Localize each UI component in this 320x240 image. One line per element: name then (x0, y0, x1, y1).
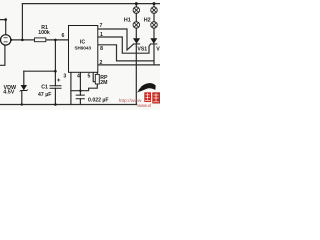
watermark red character 2 (152, 92, 160, 103)
wire C1 bottom to ground rail (54, 88, 56, 104)
svg-text:100k: 100k (38, 30, 50, 36)
svg-text:2: 2 (99, 60, 102, 66)
wire IC pin 5 to RP wiper (93, 72, 95, 81)
svg-text:/www.el: /www.el (137, 103, 151, 108)
wire IC pin 7 to VS1 gate (98, 29, 134, 50)
wire mic output row to R1 and IC pin 6 (11, 39, 69, 41)
svg-text:1: 1 (100, 32, 103, 38)
potentiometer RP (95, 74, 99, 84)
svg-text:8: 8 (100, 46, 103, 52)
lamp H2 upper (151, 7, 158, 14)
svg-text:4: 4 (77, 74, 80, 80)
C1 polarity plus (57, 78, 60, 81)
node mic supply junction (4, 18, 7, 21)
wire zener vertical drop (23, 71, 25, 85)
node pin4 junction (79, 90, 81, 92)
svg-text:5: 5 (87, 74, 90, 80)
wire VS1 cathode to ground rail (135, 44, 137, 105)
wire left frame vertical from rail to mic node (21, 4, 23, 40)
node zener feed junction (54, 70, 57, 73)
capacitor C2 0.022uF (76, 95, 85, 99)
svg-text:H1: H1 (124, 17, 131, 23)
wire zener cathode to ground rail (21, 91, 23, 105)
wire IC pin 4 to C2 (79, 72, 81, 95)
lamp H2 lower (151, 22, 158, 29)
svg-text:7: 7 (100, 23, 103, 29)
svg-text:SH9043: SH9043 (74, 46, 91, 51)
wire RP top stub (96, 72, 98, 74)
wire zener feed from node to VDW (24, 70, 56, 72)
lamp H1 upper (133, 7, 140, 14)
zener diode VDW (20, 85, 28, 92)
node mic right terminal (10, 39, 12, 41)
node mic output junction (21, 39, 24, 42)
svg-text:H2: H2 (144, 17, 151, 23)
wire C1 vertical branch (54, 40, 56, 86)
wire lamp column 2 to VS2 anode (153, 28, 155, 38)
svg-text:3: 3 (63, 74, 66, 80)
wire mic bottom lead to left edge (0, 45, 5, 65)
svg-text:C1: C1 (41, 85, 48, 91)
wire lamp column 2 feed (153, 4, 155, 7)
background (0, 0, 160, 110)
svg-text:6: 6 (62, 33, 65, 39)
svg-text:2M: 2M (100, 80, 107, 86)
capacitor C1 electrolytic (50, 86, 62, 89)
svg-text:4.5V: 4.5V (3, 90, 14, 96)
lamp H1 lower (133, 22, 140, 29)
svg-text:VS2: VS2 (156, 46, 160, 52)
node R1 to C1 junction (54, 39, 57, 42)
svg-text:47 µF: 47 µF (38, 92, 51, 98)
wire pin3-pin4-RP bottom link (71, 84, 97, 91)
microphone BM (1, 35, 11, 45)
wire lamp H2 link (153, 13, 155, 22)
resistor R1 (35, 38, 46, 42)
thyristor VS1 (133, 38, 140, 44)
thyristor VS2 (150, 38, 157, 44)
wire IC pin 8 to VS2 cathode (98, 45, 154, 61)
wire bottom ground rail (0, 104, 136, 106)
wire lamp H1 link (135, 13, 137, 22)
node lamp column 2 rail junction (153, 2, 156, 5)
wire IC pin 2 to right edge (98, 64, 160, 66)
wire C2 bottom to ground rail (79, 99, 81, 105)
wire lamp column 1 to VS1 anode (135, 28, 137, 38)
node zener ground junction (21, 103, 23, 105)
wire mic top feed from left edge (0, 20, 6, 35)
node lamp column 1 rail junction (135, 2, 138, 5)
wire VS2 cathode to pin 2 wire (153, 44, 155, 65)
watermark logo swoosh (137, 83, 156, 92)
wire lamp column 1 feed (135, 4, 137, 7)
op-amp/IC U1 box (69, 26, 98, 73)
svg-text:VS1: VS1 (137, 46, 147, 52)
wire IC pin 3 to ground rail (70, 72, 72, 104)
watermark red character 1 (144, 92, 151, 102)
wire top supply rail (22, 3, 160, 5)
svg-text:0.022 µF: 0.022 µF (88, 98, 109, 104)
wire IC pin 1 to VS2 gate (98, 37, 151, 53)
node C1 ground junction (54, 103, 57, 106)
